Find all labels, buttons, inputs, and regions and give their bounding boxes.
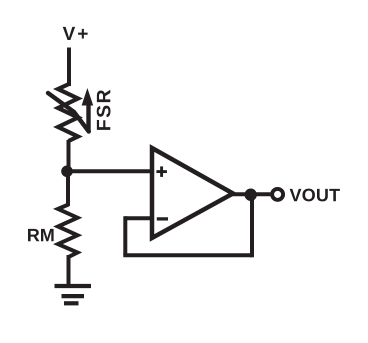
- node A junction dot: [61, 166, 73, 178]
- output terminal circle: [272, 189, 283, 200]
- wire op-amp - input: [125, 216, 152, 220]
- op-amp + input symbol: [156, 166, 167, 177]
- label FSR: [97, 90, 111, 130]
- output junction dot: [245, 189, 257, 201]
- op-amp U1: [152, 148, 233, 238]
- wire op-amp output: [231, 192, 270, 196]
- op-amp - input symbol: [157, 217, 168, 220]
- wire FSR to node A: [67, 140, 71, 174]
- label RM: [28, 229, 54, 241]
- wire node A to op-amp + input: [66, 169, 152, 173]
- feedback wire right vertical: [250, 195, 254, 258]
- wire node A to RM: [66, 173, 70, 206]
- wire V+ to FSR: [67, 48, 71, 87]
- label V+: [63, 27, 88, 40]
- feedback wire bottom: [123, 253, 252, 257]
- ground: [55, 286, 92, 303]
- wire RM to ground: [67, 255, 71, 286]
- feedback wire left vertical: [123, 216, 127, 255]
- resistor FSR zigzag: [58, 84, 78, 141]
- FSR arrow shaft: [86, 103, 90, 132]
- FSR arrow tail: [48, 93, 89, 132]
- FSR arrowhead: [82, 88, 94, 106]
- label VOUT: [290, 189, 340, 202]
- resistor RM zigzag: [58, 205, 78, 258]
